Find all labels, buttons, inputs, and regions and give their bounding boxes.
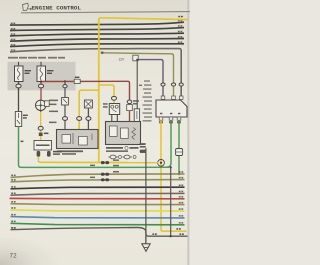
- component box D1 on wire W5: [62, 98, 69, 106]
- connectors below R1: [37, 151, 51, 157]
- wire yellow below coil T1: [40, 112, 42, 141]
- wire L3 (top bundle): [10, 33, 184, 36]
- wire W5 vertical from node B to ECM: [64, 81, 66, 129]
- inline connectors on bottom wires: [101, 161, 109, 181]
- resistor R1 (box with bar): [34, 141, 52, 151]
- caption text above fuse band: [8, 57, 65, 59]
- header rule: [21, 12, 190, 13]
- connector C6 on wire W9: [74, 79, 80, 83]
- wire long blue (bottom bundle): [11, 217, 185, 218]
- fusible link FL2 stub: [40, 62, 42, 66]
- wire W8 labels: [152, 233, 154, 235]
- relay K1: [109, 104, 119, 115]
- connector 4B blob: [39, 133, 43, 136]
- connector oval below FL2: [38, 84, 43, 88]
- wire L6 gray, turns down to U3 pin 3: [10, 49, 181, 96]
- wire long yellow (bottom bundle): [40, 161, 158, 163]
- spare mark: [132, 113, 134, 115]
- wire long green (bottom bundle): [21, 166, 169, 168]
- bottom-left corner shadow: [0, 235, 60, 265]
- connector oval on T1 wire: [38, 126, 43, 130]
- paper background: [0, 0, 190, 265]
- connector row under U2: [110, 155, 130, 159]
- module U3 (cornered box): [156, 100, 187, 117]
- wire long olive 1 (bottom bundle): [11, 174, 185, 178]
- wire W4 yellow from U3 down and across bottom: [161, 120, 187, 231]
- wire W7 green from U3 through filter C5: [178, 120, 180, 174]
- wire W1 yellow feed, top horizontal: [99, 18, 188, 20]
- wire W6 green from U3 to long green line: [167, 120, 172, 167]
- wire yellow branch to ECM U1: [79, 90, 99, 129]
- connector C9 beside igniter: [133, 100, 139, 104]
- connector oval on wire W5: [63, 117, 68, 121]
- fusible link FL2: [37, 66, 46, 82]
- connector A2 oval on wire W5: [63, 85, 67, 88]
- connectors C2 C3 C4 ovals on U3 input wires: [161, 83, 183, 86]
- connector C8 on maroon wire W9: [127, 100, 132, 104]
- wire W10 ground drop from U2 area: [145, 148, 147, 243]
- FL2 value label: [47, 70, 54, 74]
- wire long green 2 (bottom bundle): [11, 223, 185, 225]
- wire W2 olive to U3 pin 2: [103, 53, 174, 96]
- wire long olive 2 (bottom bundle): [11, 180, 185, 182]
- connector A1 oval below FL1: [16, 84, 21, 88]
- ECM U1 (gray box): [57, 130, 99, 149]
- header icon: [23, 3, 32, 10]
- label text column left: [49, 100, 58, 124]
- shaded fuse band: [8, 62, 76, 91]
- junction J1 on olive line: [178, 173, 180, 175]
- wire L5 (top bundle): [10, 44, 184, 47]
- wire W3 purple to U3 pin 1: [138, 60, 163, 96]
- inline labels: [90, 159, 119, 178]
- U3 bottom pin numbers: [160, 113, 180, 114]
- wire from FL1 down: [18, 82, 20, 112]
- node B junction on W9: [64, 80, 66, 82]
- node A junction at FL2: [40, 80, 42, 82]
- igniter U2 (gray box): [106, 122, 141, 145]
- igniter U2 labels: [106, 143, 146, 153]
- wire long maroon-gray (bottom bundle): [11, 193, 185, 195]
- splice S1 on yellow wires: [158, 159, 165, 166]
- page right edge line: [188, 0, 189, 265]
- U3 top pin boxes (pins 1 2 3): [161, 96, 183, 99]
- connector C7 with wire to ECM: [84, 100, 92, 108]
- top bundle right end labels: [178, 20, 182, 43]
- wire long olive 3 (bottom bundle): [11, 203, 185, 206]
- left end labels bottom bundle: [11, 175, 15, 229]
- ECM U1 label: [57, 150, 83, 154]
- connectors below U3 pins: [159, 121, 181, 124]
- relay K1 output stubs to U2: [112, 115, 118, 122]
- wire W8 gray to ground: [11, 227, 188, 236]
- yellow feed wire label: [178, 16, 180, 17]
- wire L1 (top bundle): [10, 22, 184, 25]
- connector C1 on purple wire: [133, 55, 138, 61]
- wire long black (bottom bundle): [11, 187, 185, 189]
- right end labels bottom bundle: [179, 171, 183, 223]
- ignition coil T1 (circle-cross): [36, 100, 46, 110]
- wire L4 (top bundle): [10, 39, 184, 42]
- fusible link FL1: [15, 66, 24, 82]
- wire L2 (top bundle): [10, 28, 184, 31]
- wire yellow branch to relay K1: [99, 85, 114, 104]
- noise filter C5: [176, 149, 183, 156]
- wire W11 drop from green line to W8: [170, 167, 172, 236]
- wire long yellow 2 (bottom bundle): [11, 210, 185, 211]
- sensor B1 box on left wire: [15, 112, 21, 127]
- wire red from FL2 down to coil T1: [40, 82, 42, 113]
- FL1 value label: [25, 70, 32, 74]
- wire yellow corner into long yellow line: [38, 157, 40, 163]
- wire green from B1 to long green line: [19, 127, 22, 168]
- relay K1 label: [103, 103, 108, 108]
- yellow bottom right label: [176, 228, 178, 230]
- wire long red (bottom bundle): [10, 197, 185, 199]
- fusible link FL1 stub: [18, 62, 20, 66]
- top bundle left end labels: [11, 23, 15, 51]
- wire W9 maroon horizontal to igniter U2: [41, 81, 130, 99]
- U3 side label text: [143, 80, 153, 121]
- U3 bottom pin boxes: [159, 117, 181, 120]
- wire W1 yellow main vertical: [98, 19, 100, 163]
- wire branch from W3 down to C9: [136, 60, 138, 109]
- node N1 start of olive wire: [101, 52, 104, 54]
- ground G1: [142, 244, 150, 252]
